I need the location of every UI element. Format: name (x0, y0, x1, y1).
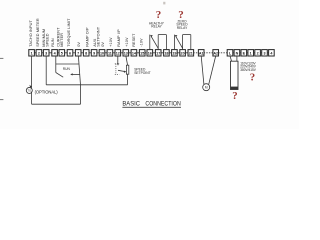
svg-text:9: 9 (93, 51, 95, 55)
svg-text:RAMP I/P: RAMP I/P (117, 29, 121, 47)
svg-text:RAMP O/P: RAMP O/P (86, 27, 90, 47)
svg-text:6: 6 (69, 51, 71, 55)
svg-text:SETPOINT: SETPOINT (96, 26, 100, 47)
svg-text:?: ? (178, 9, 184, 21)
svg-text:15: 15 (140, 51, 144, 55)
svg-text:0V: 0V (101, 42, 105, 47)
svg-text:A2: A2 (213, 51, 218, 55)
svg-text:17: 17 (156, 51, 160, 55)
svg-text:16: 16 (148, 51, 152, 55)
svg-text:TORQUE LIMIT: TORQUE LIMIT (67, 18, 71, 47)
svg-text:+10V: +10V (109, 37, 113, 47)
svg-text:20: 20 (181, 51, 185, 55)
svg-text:SPEED METER: SPEED METER (36, 18, 40, 47)
svg-text:2: 2 (257, 51, 259, 55)
svg-text:BASIC: BASIC (122, 101, 140, 108)
svg-text:1: 1 (250, 51, 252, 55)
svg-text:7: 7 (77, 51, 79, 55)
svg-text:18: 18 (164, 51, 168, 55)
svg-text:-10V: -10V (140, 38, 144, 47)
svg-text:380V/415V: 380V/415V (240, 68, 256, 72)
svg-text:0V: 0V (77, 42, 81, 47)
svg-text:2: 2 (38, 51, 40, 55)
svg-text:?: ? (250, 72, 255, 84)
svg-text:A1: A1 (199, 51, 204, 55)
svg-text:SPEED: SPEED (46, 33, 50, 47)
svg-text:3: 3 (45, 51, 47, 55)
svg-text:M: M (205, 86, 208, 90)
svg-text:+10V: +10V (125, 37, 129, 47)
svg-text:TG: TG (27, 89, 31, 93)
svg-text:METER: METER (60, 33, 64, 47)
svg-text:13: 13 (124, 51, 128, 55)
svg-text:TACHO INPUT: TACHO INPUT (29, 19, 33, 46)
svg-text:RESET: RESET (132, 33, 136, 47)
svg-text:CONNECTION: CONNECTION (145, 101, 181, 108)
svg-text:?: ? (156, 9, 162, 21)
svg-text:SETPOINT: SETPOINT (134, 71, 151, 75)
svg-text:11: 11 (108, 51, 112, 55)
svg-text:RUN: RUN (63, 67, 71, 71)
svg-text:?: ? (232, 90, 237, 102)
svg-text:10: 10 (100, 51, 104, 55)
svg-text:19: 19 (172, 51, 176, 55)
svg-text:3: 3 (263, 51, 265, 55)
svg-text:8: 8 (85, 51, 87, 55)
svg-text:5: 5 (61, 51, 63, 55)
svg-text:(OPTIONAL): (OPTIONAL) (35, 89, 59, 94)
svg-text:12: 12 (116, 51, 120, 55)
svg-text:RELAY: RELAY (177, 26, 188, 30)
svg-text:N: N (236, 51, 239, 55)
svg-text:1: 1 (31, 51, 33, 55)
svg-text:21: 21 (189, 51, 193, 55)
svg-text:RUN: RUN (51, 38, 55, 47)
svg-text:RELAY: RELAY (151, 25, 162, 29)
